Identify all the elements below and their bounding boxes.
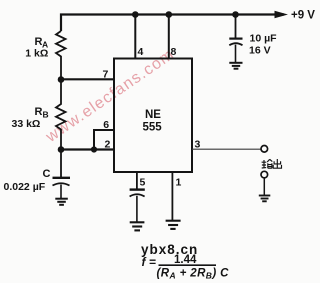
svg-text:3: 3 bbox=[195, 139, 201, 151]
wire pin6 stub bbox=[94, 130, 114, 150]
wire pin7 bbox=[61, 78, 114, 80]
wire pin4 bbox=[134, 15, 136, 59]
node A (RA/RB junction) bbox=[58, 76, 65, 83]
wire top rail bbox=[61, 15, 284, 32]
fraction bar bbox=[159, 264, 217, 266]
svg-text:555: 555 bbox=[143, 121, 163, 133]
resistor RB bbox=[56, 80, 66, 150]
output terminal bottom bbox=[261, 171, 268, 178]
op IC NE555 U1 bbox=[114, 59, 192, 173]
output terminal top bbox=[261, 146, 268, 153]
svg-text:5: 5 bbox=[140, 177, 146, 189]
wire pin1 bbox=[171, 172, 173, 220]
ground below 10uF bbox=[229, 62, 242, 64]
output label "chu" char bbox=[273, 159, 281, 168]
capacitor 10uF bbox=[229, 37, 242, 39]
svg-text:R: R bbox=[35, 106, 43, 118]
ground below pin5 cap bbox=[130, 221, 145, 223]
svg-text:2: 2 bbox=[105, 139, 111, 151]
ground below pin1 bbox=[166, 220, 181, 222]
svg-text:C: C bbox=[43, 168, 51, 180]
svg-text:8: 8 bbox=[171, 46, 177, 58]
svg-text:4: 4 bbox=[138, 46, 144, 58]
capacitor C 0.022uF bbox=[53, 177, 71, 179]
wire to bypass cap bbox=[235, 15, 237, 39]
svg-text:16 V: 16 V bbox=[249, 45, 271, 57]
svg-text:1 kΩ: 1 kΩ bbox=[25, 48, 48, 60]
wire pin3 bbox=[192, 148, 261, 150]
node pin8 top bbox=[166, 11, 173, 18]
svg-text:(RA + 2RB) C: (RA + 2RB) C bbox=[157, 268, 230, 281]
svg-text:0.022 µF: 0.022 µF bbox=[4, 181, 46, 193]
svg-text:33 kΩ: 33 kΩ bbox=[12, 118, 41, 130]
capacitor at pin5 bbox=[130, 188, 145, 190]
wire pin8 bbox=[168, 15, 170, 59]
svg-text:1.44: 1.44 bbox=[174, 254, 197, 266]
wire pin2 bbox=[61, 148, 114, 150]
node bypass cap top bbox=[232, 11, 239, 18]
svg-text:7: 7 bbox=[103, 69, 109, 81]
svg-text:1: 1 bbox=[176, 177, 182, 189]
wire output to ground bbox=[263, 178, 265, 195]
ground below C bbox=[55, 198, 68, 200]
ground below output bbox=[259, 195, 271, 197]
node pin4 top bbox=[132, 11, 139, 18]
output label "shu" char bbox=[262, 159, 273, 168]
node pin6/pin2 junction bbox=[91, 146, 97, 152]
svg-text:10 µF: 10 µF bbox=[250, 33, 278, 45]
resistor RA bbox=[56, 31, 66, 80]
svg-text:f =: f = bbox=[142, 255, 156, 269]
svg-text:+9 V: +9 V bbox=[291, 9, 315, 21]
svg-text:NE: NE bbox=[145, 109, 161, 121]
node B (RB/C/pin2 junction) bbox=[58, 146, 65, 153]
svg-text:6: 6 bbox=[103, 119, 109, 131]
svg-text:B: B bbox=[43, 110, 49, 120]
wire pin5 bbox=[136, 172, 138, 189]
wire node B to C bbox=[60, 150, 62, 178]
+9V arrow bbox=[275, 11, 289, 18]
